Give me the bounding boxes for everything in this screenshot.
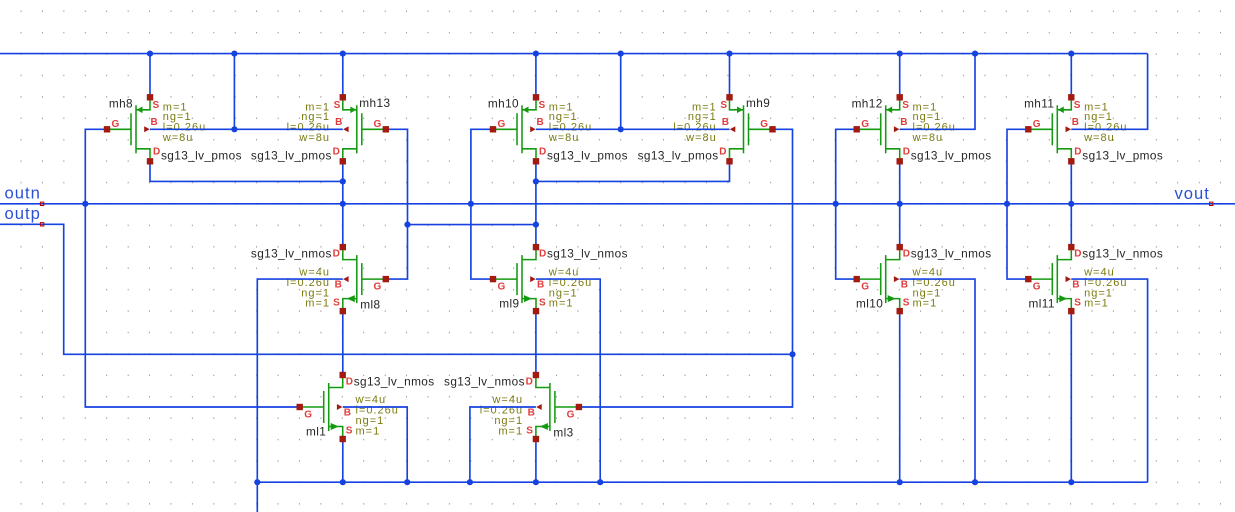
wire outn/vout horizontal net <box>0 203 1235 205</box>
NMOS transistor ml1 (sg13_lv_nmos) <box>297 372 435 442</box>
svg-text:D: D <box>346 377 353 388</box>
svg-text:mh9: mh9 <box>746 96 770 110</box>
svg-text:w=8u: w=8u <box>298 132 330 144</box>
svg-text:B: B <box>335 280 342 291</box>
wire cross-couple row to mh10 drain column <box>408 224 536 226</box>
wire ml10 source down to bottom rail <box>899 310 901 482</box>
value labels of mh9 <box>673 102 716 144</box>
wire ml10 body down to bottom rail <box>900 279 975 482</box>
svg-text:mh10: mh10 <box>488 96 519 110</box>
junction dots on outn net <box>82 201 1074 207</box>
PMOS transistor mh13 (sg13_lv_pmos) <box>251 94 391 164</box>
value labels of ml10 <box>912 266 956 309</box>
junction dot second drain join <box>533 178 539 184</box>
svg-text:S: S <box>539 298 546 309</box>
wire mh12 gate down through outn to ml10 gate <box>836 129 857 279</box>
junction dot cross-couple left <box>404 222 410 228</box>
wire mh10 source to rail <box>535 54 537 99</box>
svg-text:sg13_lv_nmos: sg13_lv_nmos <box>1082 247 1163 261</box>
NMOS transistor ml10 (sg13_lv_nmos) <box>854 244 992 314</box>
svg-text:S: S <box>539 100 546 111</box>
svg-text:sg13_lv_pmos: sg13_lv_pmos <box>911 149 992 163</box>
PMOS transistor mh12 (sg13_lv_pmos) <box>852 94 992 164</box>
wire mh9 drain to mh10 drain <box>536 161 730 182</box>
svg-text:S: S <box>902 100 909 111</box>
svg-text:G: G <box>304 410 312 421</box>
wire mh11 drain down to ml11 drain <box>1070 161 1072 248</box>
svg-text:w=8u: w=8u <box>1083 132 1115 144</box>
svg-text:S: S <box>720 100 727 111</box>
wire ml11 body to bottom rail end <box>1071 279 1147 482</box>
wire mh8 drain to mh13 drain <box>150 161 343 182</box>
wire mh13 gate to cross-couple node <box>386 129 408 224</box>
wire mh10 drain down to ml9 drain <box>535 161 537 248</box>
value labels of mh13 <box>287 102 330 144</box>
svg-text:sg13_lv_nmos: sg13_lv_nmos <box>251 247 332 261</box>
svg-text:B: B <box>1072 280 1079 291</box>
wire outp row down to ml3 gate <box>579 354 793 407</box>
svg-text:outp: outp <box>5 204 41 223</box>
svg-text:D: D <box>539 147 546 158</box>
wire mh12 source to rail <box>899 54 901 99</box>
wire ml1 source to bottom rail <box>342 438 344 482</box>
svg-text:S: S <box>1074 100 1081 111</box>
svg-text:B: B <box>528 408 535 419</box>
value labels of mh10 <box>548 102 592 144</box>
svg-text:B: B <box>344 408 351 419</box>
svg-text:B: B <box>335 117 342 128</box>
svg-text:m=1: m=1 <box>549 298 574 310</box>
value labels of ml8 <box>287 266 330 309</box>
svg-text:G: G <box>760 119 768 130</box>
svg-text:ml3: ml3 <box>553 426 573 440</box>
PMOS transistor mh8 (sg13_lv_pmos) <box>104 94 242 164</box>
svg-text:w=8u: w=8u <box>685 132 717 144</box>
junction dot mh8-mh13 body tap <box>231 126 237 132</box>
wire mh13 source to rail <box>342 54 344 99</box>
wire mh9 gate down to outp row <box>773 129 793 354</box>
svg-text:mh13: mh13 <box>359 96 390 110</box>
svg-text:G: G <box>498 119 506 130</box>
junction dot first-stage drain join left <box>340 178 346 184</box>
svg-text:sg13_lv_pmos: sg13_lv_pmos <box>638 149 719 163</box>
svg-text:G: G <box>567 410 575 421</box>
svg-text:sg13_lv_pmos: sg13_lv_pmos <box>547 149 628 163</box>
value labels of ml11 <box>1083 266 1127 309</box>
wire outp to row below nmos pair and mh9 gate <box>0 224 793 354</box>
svg-text:B: B <box>900 117 907 128</box>
svg-text:S: S <box>1074 298 1081 309</box>
NMOS transistor ml9 (sg13_lv_nmos) <box>490 244 628 314</box>
svg-text:D: D <box>539 249 546 260</box>
svg-text:mh11: mh11 <box>1024 96 1054 110</box>
PMOS transistor mh11 (sg13_lv_pmos) <box>1024 94 1163 164</box>
svg-text:D: D <box>719 147 726 158</box>
svg-text:sg13_lv_nmos: sg13_lv_nmos <box>911 247 992 261</box>
svg-text:D: D <box>903 249 910 260</box>
net pin marker outp <box>40 223 43 226</box>
svg-text:sg13_lv_pmos: sg13_lv_pmos <box>161 149 242 163</box>
svg-text:m=1: m=1 <box>913 298 938 310</box>
junction dots on VDD rail <box>147 51 1075 57</box>
wire mh8 gate down to outn and ml1 gate <box>85 129 299 407</box>
value labels of ml9 <box>548 266 592 309</box>
svg-text:sg13_lv_nmos: sg13_lv_nmos <box>547 247 628 261</box>
wire mh11 gate down through vout to ml11 gate <box>1007 129 1028 279</box>
svg-text:sg13_lv_pmos: sg13_lv_pmos <box>1082 149 1163 163</box>
svg-text:mh12: mh12 <box>852 96 883 110</box>
svg-text:mh8: mh8 <box>109 96 133 110</box>
svg-text:B: B <box>151 117 158 128</box>
net pin marker outn <box>40 202 43 205</box>
svg-text:G: G <box>1033 119 1041 130</box>
svg-text:S: S <box>346 426 353 437</box>
value labels of ml1 <box>355 394 399 437</box>
svg-text:D: D <box>333 147 340 158</box>
svg-text:D: D <box>903 147 910 158</box>
svg-text:ml1: ml1 <box>306 425 326 439</box>
junction dot cross-couple right <box>533 222 539 228</box>
svg-text:B: B <box>901 280 908 291</box>
svg-text:G: G <box>112 119 120 130</box>
svg-text:ml11: ml11 <box>1029 297 1055 311</box>
svg-text:G: G <box>1033 282 1041 293</box>
wire ml8 source down to ml1 drain <box>342 310 344 376</box>
wire ml9 body down to bottom rail <box>536 279 600 482</box>
NMOS transistor ml3 (sg13_lv_nmos) <box>444 372 582 442</box>
wire VDD top rail <box>0 53 1148 55</box>
svg-text:G: G <box>374 119 382 130</box>
wire mh8 body to mh13 body <box>150 128 343 130</box>
svg-text:S: S <box>333 298 340 309</box>
svg-text:G: G <box>861 282 869 293</box>
svg-text:ml9: ml9 <box>499 297 519 311</box>
wire ml3 body down to bottom rail <box>470 407 536 482</box>
wire mh8 source to rail <box>149 54 151 99</box>
svg-text:G: G <box>498 282 506 293</box>
wire mh11 source to rail <box>1070 54 1072 99</box>
wire mh9 source to rail <box>729 54 731 99</box>
svg-text:m=1: m=1 <box>498 426 523 438</box>
NMOS transistor ml8 (sg13_lv_nmos) <box>251 244 389 314</box>
value labels of mh12 <box>912 102 956 144</box>
wire ml9 source down to ml3 drain <box>535 310 537 376</box>
wire ml11 source down to bottom rail <box>1070 310 1072 482</box>
svg-text:B: B <box>722 117 729 128</box>
wire mh10 gate down through outn to ml9 gate <box>471 129 493 279</box>
value labels of ml3 <box>480 394 523 437</box>
wire VSS bottom rail <box>257 481 1147 483</box>
svg-text:sg13_lv_pmos: sg13_lv_pmos <box>251 149 332 163</box>
svg-text:G: G <box>861 119 869 130</box>
svg-text:D: D <box>153 147 160 158</box>
wire mh13 drain down to ml8 drain <box>342 161 344 248</box>
wire mh10 body to mh9 body <box>536 128 730 130</box>
svg-text:vout: vout <box>1175 184 1210 203</box>
svg-text:D: D <box>526 377 533 388</box>
svg-text:m=1: m=1 <box>305 298 330 310</box>
wire rail end to mh11 body <box>1071 54 1147 130</box>
svg-text:S: S <box>903 298 910 309</box>
junction dots on VSS rail <box>254 479 1074 485</box>
svg-text:G: G <box>374 282 382 293</box>
svg-text:ml8: ml8 <box>360 298 380 312</box>
svg-text:sg13_lv_nmos: sg13_lv_nmos <box>444 375 525 389</box>
wire ml8 gate up to cross-couple node <box>386 225 408 280</box>
svg-text:S: S <box>334 100 341 111</box>
wire ml1 body down to bottom rail <box>343 407 407 482</box>
svg-text:B: B <box>537 117 544 128</box>
wire ml3 source to bottom rail <box>535 438 537 482</box>
wire mh12 drain down to ml10 drain <box>899 161 901 248</box>
junction dot outp row <box>789 351 795 357</box>
svg-text:m=1: m=1 <box>1084 298 1109 310</box>
svg-text:outn: outn <box>5 184 41 203</box>
svg-text:S: S <box>526 426 533 437</box>
svg-text:sg13_lv_nmos: sg13_lv_nmos <box>354 375 435 389</box>
value labels of mh11 <box>1083 102 1127 144</box>
svg-text:B: B <box>537 280 544 291</box>
wire rail to mh10/mh9 body row <box>620 54 622 130</box>
svg-text:S: S <box>153 100 160 111</box>
NMOS transistor ml11 (sg13_lv_nmos) <box>1025 244 1163 314</box>
svg-text:w=8u: w=8u <box>912 132 944 144</box>
svg-text:D: D <box>1074 249 1081 260</box>
wire ml8 body down to bottom rail and below <box>257 279 343 512</box>
net pin marker vout <box>1210 202 1213 205</box>
svg-text:m=1: m=1 <box>356 426 381 438</box>
svg-text:D: D <box>1074 147 1081 158</box>
svg-text:ml10: ml10 <box>856 297 883 311</box>
wire rail to mh8/mh13 body row <box>233 54 235 130</box>
PMOS transistor mh9 (sg13_lv_pmos) <box>638 94 776 164</box>
wire rail to mh12 body <box>900 54 975 130</box>
svg-text:w=8u: w=8u <box>548 132 580 144</box>
svg-text:w=8u: w=8u <box>162 132 194 144</box>
svg-text:B: B <box>1072 117 1079 128</box>
svg-text:D: D <box>333 249 340 260</box>
value labels of mh8 <box>162 102 206 144</box>
junction dot mh10-mh9 body tap <box>618 126 624 132</box>
PMOS transistor mh10 (sg13_lv_pmos) <box>488 94 628 164</box>
